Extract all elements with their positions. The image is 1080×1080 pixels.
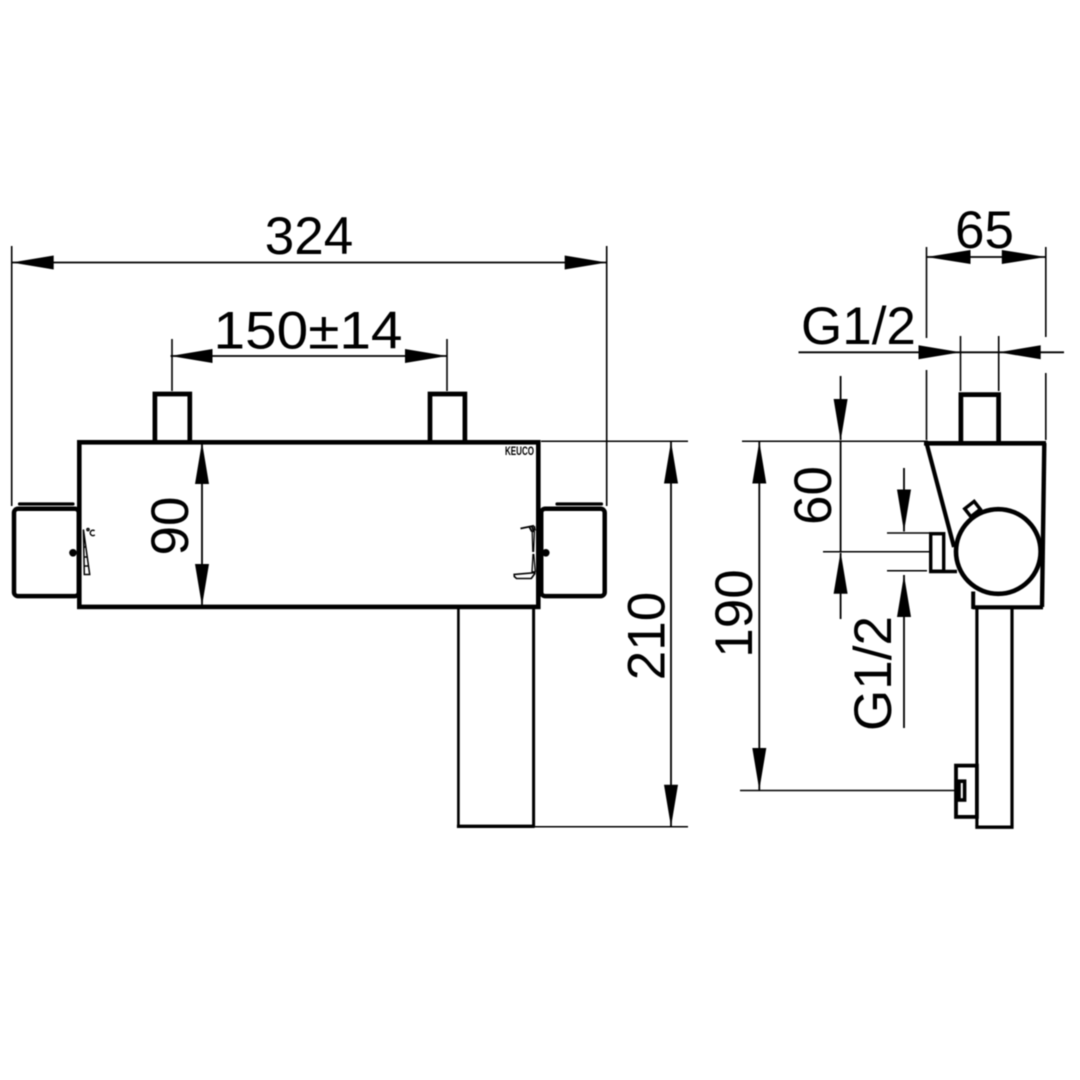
side inlet extension line right xyxy=(998,336,1000,391)
dim 150±14 text xyxy=(214,302,403,361)
dim 324 line with arrows xyxy=(12,256,607,270)
dim 65 line with arrows xyxy=(927,250,1046,264)
inlet centerline right xyxy=(446,339,448,391)
hose connection nipple xyxy=(959,781,965,800)
svg-text:190: 190 xyxy=(705,569,764,657)
right handle index dot xyxy=(542,549,550,557)
side inlet extension line left xyxy=(960,336,962,391)
right handle clip bar xyxy=(557,502,602,505)
side body top edge xyxy=(924,441,1046,446)
inlet centerline left xyxy=(171,339,173,391)
dim 90 line with arrows xyxy=(195,442,209,606)
knob grip nub xyxy=(965,501,981,516)
outlet bottom tick xyxy=(887,570,927,572)
side inlet xyxy=(961,395,999,441)
shower wand upper xyxy=(532,532,534,552)
dim 190 text xyxy=(705,569,764,657)
temperature °C mark xyxy=(87,529,95,536)
front inlet left xyxy=(155,394,190,441)
dim 190 extension line top xyxy=(742,440,928,442)
svg-text:90: 90 xyxy=(141,497,200,556)
dim 324 extension line left xyxy=(11,246,13,506)
left handle index dot xyxy=(69,549,77,557)
dim 60 text xyxy=(784,466,843,525)
dim 190 line with arrows xyxy=(752,442,766,791)
dim 190 extension line bottom xyxy=(740,790,955,792)
dim G1/2 side text xyxy=(844,616,903,731)
side body lower-left edge xyxy=(971,592,975,610)
left handle clip bar xyxy=(20,502,74,505)
dim 324 extension line right xyxy=(606,246,608,506)
left handle xyxy=(14,509,79,596)
dim G1/2 side arrows xyxy=(897,468,911,728)
svg-text:324: 324 xyxy=(265,207,353,266)
hose connection housing xyxy=(956,766,977,817)
outlet boss bottom line xyxy=(929,570,957,573)
dim 210 line with arrows xyxy=(664,442,678,827)
front drop pipe xyxy=(457,608,535,826)
side body right edge xyxy=(1042,443,1044,607)
dim 65 text xyxy=(955,201,1014,260)
bathtub pictogram xyxy=(514,573,535,579)
svg-text:210: 210 xyxy=(618,592,677,680)
svg-text:150±14: 150±14 xyxy=(214,302,403,361)
dim 210 extension line top xyxy=(541,440,688,442)
dim G1/2 top line with arrows xyxy=(799,345,1065,359)
svg-text:G1/2: G1/2 xyxy=(801,297,916,356)
dim 65 extension line right xyxy=(1045,247,1047,440)
dim 60 line with arrows xyxy=(834,376,848,619)
svg-text:65: 65 xyxy=(955,201,1014,260)
outlet centerline xyxy=(823,551,930,553)
right handle xyxy=(541,509,605,596)
side body bottom edge xyxy=(973,605,1044,609)
shower wand lower xyxy=(532,555,535,572)
dim 210 text xyxy=(618,592,677,680)
dim 210 extension line bottom xyxy=(535,826,689,828)
outlet top tick xyxy=(887,532,930,534)
dim 324 text xyxy=(265,207,353,266)
svg-text:KEUCO: KEUCO xyxy=(505,446,534,458)
outlet nipple xyxy=(931,534,944,572)
dim G1/2 top text xyxy=(801,297,916,356)
front view body xyxy=(79,442,538,607)
dim 90 text xyxy=(141,497,200,556)
dim 150±14 line with arrows xyxy=(171,349,448,363)
side drop pipe xyxy=(975,607,1013,827)
shower head pictogram xyxy=(521,526,536,532)
KEUCO logo xyxy=(505,446,534,458)
temperature scale wedge xyxy=(83,530,89,575)
front inlet right xyxy=(430,394,465,441)
svg-text:60: 60 xyxy=(784,466,843,525)
knob circle xyxy=(956,509,1041,594)
dim 65 extension line left xyxy=(926,247,928,440)
svg-text:G1/2: G1/2 xyxy=(844,616,903,731)
side body front slant edge xyxy=(927,443,955,547)
